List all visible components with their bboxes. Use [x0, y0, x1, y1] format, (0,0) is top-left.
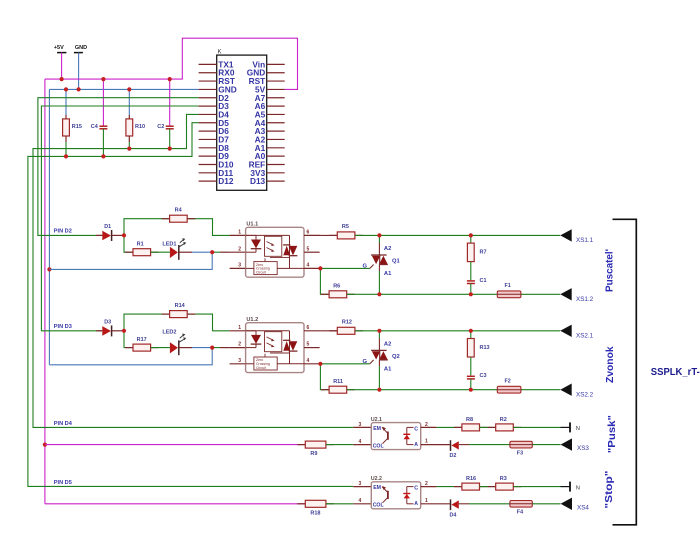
svg-text:1: 1 — [238, 230, 241, 236]
svg-text:R4: R4 — [175, 208, 183, 214]
svg-text:R1: R1 — [137, 242, 144, 248]
svg-text:K: K — [218, 50, 222, 56]
svg-text:U2.2: U2.2 — [371, 476, 382, 482]
svg-text:COL: COL — [373, 503, 385, 509]
svg-text:R9: R9 — [310, 451, 317, 457]
svg-text:A1: A1 — [384, 367, 392, 373]
svg-text:R15: R15 — [72, 124, 82, 130]
svg-text:2: 2 — [425, 422, 428, 428]
svg-text:G: G — [363, 359, 368, 365]
svg-text:EM: EM — [373, 426, 381, 432]
svg-text:LED2: LED2 — [162, 329, 176, 335]
svg-text:D3: D3 — [104, 320, 111, 326]
svg-text:C2: C2 — [157, 124, 164, 130]
svg-text:2: 2 — [425, 481, 428, 487]
svg-text:A2: A2 — [384, 342, 391, 348]
svg-text:2: 2 — [238, 246, 241, 252]
svg-text:D12: D12 — [218, 176, 234, 186]
svg-text:R11: R11 — [333, 379, 343, 385]
svg-text:R13: R13 — [480, 345, 490, 351]
svg-text:Puscatel': Puscatel' — [604, 249, 615, 292]
svg-text:R8: R8 — [466, 417, 473, 423]
svg-text:R6: R6 — [333, 283, 340, 289]
svg-text:1: 1 — [425, 439, 428, 445]
svg-text:R3: R3 — [500, 476, 507, 482]
svg-text:"Stop": "Stop" — [604, 470, 615, 508]
svg-text:5: 5 — [307, 342, 310, 348]
svg-text:Circuit: Circuit — [256, 366, 266, 370]
svg-text:XS2.1: XS2.1 — [576, 333, 594, 340]
svg-text:XS3: XS3 — [577, 445, 589, 452]
svg-text:C: C — [414, 486, 418, 492]
svg-text:R2: R2 — [500, 417, 507, 423]
svg-text:R17: R17 — [137, 337, 147, 343]
svg-text:C3: C3 — [480, 373, 487, 379]
svg-text:C: C — [414, 426, 418, 432]
svg-text:R7: R7 — [480, 250, 487, 256]
svg-text:Circuit: Circuit — [256, 270, 266, 274]
svg-text:C1: C1 — [480, 278, 487, 284]
svg-text:F2: F2 — [505, 378, 511, 384]
svg-text:F3: F3 — [517, 451, 523, 457]
svg-text:R18: R18 — [310, 510, 320, 516]
svg-text:D4: D4 — [450, 512, 457, 518]
svg-text:U1.1: U1.1 — [246, 222, 258, 228]
svg-text:6: 6 — [307, 230, 310, 236]
svg-text:PIN D4: PIN D4 — [54, 421, 73, 427]
svg-text:XS1.1: XS1.1 — [576, 237, 594, 244]
svg-text:R14: R14 — [175, 303, 186, 309]
svg-text:SSPLK_rT-: SSPLK_rT- — [651, 367, 700, 378]
svg-text:3: 3 — [238, 263, 241, 269]
svg-text:3: 3 — [359, 422, 362, 428]
svg-text:XS1.2: XS1.2 — [576, 296, 594, 303]
svg-text:R16: R16 — [466, 476, 476, 482]
svg-text:F4: F4 — [517, 510, 523, 516]
svg-text:4: 4 — [307, 358, 310, 364]
svg-text:3: 3 — [359, 481, 362, 487]
svg-text:PIN D5: PIN D5 — [54, 480, 72, 486]
svg-text:1: 1 — [238, 325, 241, 331]
svg-text:"Pusk": "Pusk" — [607, 415, 618, 453]
svg-text:F1: F1 — [505, 283, 511, 289]
svg-text:3: 3 — [238, 358, 241, 364]
svg-text:EM: EM — [373, 485, 381, 491]
svg-text:D13: D13 — [250, 176, 266, 186]
svg-text:N: N — [576, 426, 580, 432]
svg-text:PIN D3: PIN D3 — [54, 324, 72, 330]
svg-text:A: A — [414, 501, 418, 507]
svg-text:A1: A1 — [384, 271, 392, 277]
svg-text:R12: R12 — [342, 320, 352, 326]
svg-text:C4: C4 — [91, 124, 99, 130]
svg-text:5: 5 — [307, 246, 310, 252]
svg-text:Q1: Q1 — [392, 259, 401, 265]
svg-text:2: 2 — [238, 342, 241, 348]
svg-text:XS4: XS4 — [577, 504, 589, 511]
svg-text:U1.2: U1.2 — [246, 317, 258, 323]
svg-text:XS2.2: XS2.2 — [576, 392, 594, 399]
svg-text:D1: D1 — [104, 224, 111, 230]
svg-text:U2.1: U2.1 — [371, 417, 382, 423]
svg-text:4: 4 — [307, 263, 310, 269]
svg-text:G: G — [363, 264, 368, 270]
svg-text:4: 4 — [359, 498, 362, 504]
svg-text:+5V: +5V — [54, 45, 64, 51]
svg-text:D2: D2 — [450, 453, 457, 459]
svg-text:N: N — [576, 485, 580, 491]
svg-text:6: 6 — [307, 325, 310, 331]
svg-text:1: 1 — [425, 498, 428, 504]
svg-text:R5: R5 — [342, 224, 349, 230]
svg-text:R10: R10 — [135, 124, 145, 130]
svg-text:COL: COL — [373, 443, 385, 449]
svg-text:LED1: LED1 — [162, 242, 176, 248]
svg-text:A2: A2 — [384, 246, 391, 252]
svg-text:4: 4 — [359, 439, 362, 445]
svg-text:Q2: Q2 — [392, 354, 400, 360]
svg-text:A: A — [414, 442, 418, 448]
svg-text:GND: GND — [75, 45, 87, 51]
svg-text:Zvonok: Zvonok — [605, 346, 616, 383]
svg-text:PIN D2: PIN D2 — [54, 228, 72, 234]
